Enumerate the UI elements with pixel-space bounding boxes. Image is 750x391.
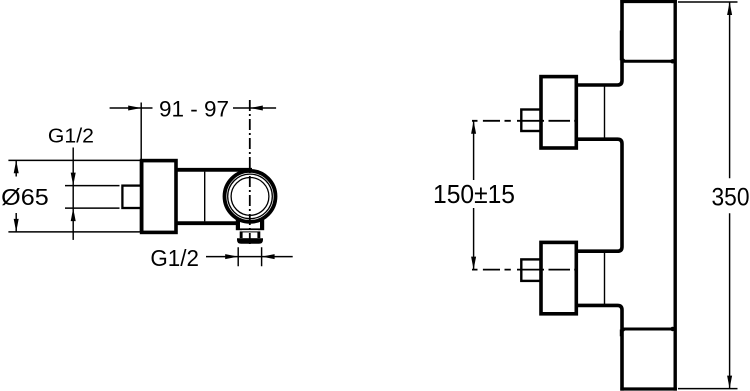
- bottom cap clip bump: [620, 330, 622, 337]
- upper inlet connector square: [521, 110, 541, 132]
- svg-text:G1/2: G1/2: [150, 245, 199, 271]
- redraw flange left edge over connector: [140, 161, 144, 233]
- junction dot divider/right edge top: [670, 59, 674, 63]
- bar bottom edge: [620, 387, 677, 390]
- dimension 91-97: left arrow: [128, 106, 141, 111]
- lower inlet connector square: [521, 259, 541, 281]
- svg-text:G1/2: G1/2: [48, 125, 94, 147]
- vertical dash-dot centerline through knob: [249, 100, 251, 245]
- dimension Ø65: dimension line segments: [15, 160, 17, 232]
- bottom cap divider: [622, 328, 675, 331]
- dimension G1/2 top: extension lines: [65, 186, 120, 209]
- dimension 91-97: right arrow: [250, 106, 263, 111]
- dimension 350: extension lines: [678, 2, 738, 389]
- top cap divider: [622, 60, 675, 63]
- dimension Ø65: top arrow: [14, 160, 19, 173]
- bar top edge: [620, 0, 677, 3]
- knob inner ring B: [231, 178, 269, 216]
- knob inner ring A: [228, 174, 273, 219]
- dimension 150±15: down arrow: [471, 257, 476, 270]
- junction dot divider/left edge bottom: [621, 328, 625, 332]
- dimension G1/2 bottom: right arrow: [262, 254, 275, 259]
- svg-text:150±15: 150±15: [433, 179, 515, 209]
- body top line: [176, 168, 252, 172]
- svg-text:Ø65: Ø65: [1, 184, 49, 210]
- dimension 350: up arrow: [727, 2, 732, 15]
- upper leg neck bottom / bar left edge middle segment / lower leg neck top: [576, 139, 622, 251]
- knob outer circle (thick): [225, 171, 276, 222]
- dimension 91-97: extension line left: [140, 103, 142, 160]
- wall flange (tall rectangle): [142, 161, 176, 233]
- dimension 350: down arrow: [727, 376, 732, 389]
- dimension G1/2 top: dimension line: [72, 148, 74, 240]
- upper centerline dash-dot: [472, 120, 577, 122]
- left inlet connector G1/2 square: [122, 186, 142, 208]
- body divider thin line: [204, 172, 206, 222]
- body bottom line: [176, 221, 244, 225]
- dimension 350: dimension line segments: [729, 2, 731, 389]
- outlet tip with flange: [237, 231, 263, 243]
- dimension 150±15: up arrow: [471, 121, 476, 134]
- lower leg neck bottom / bar left edge lower segment: [576, 305, 622, 390]
- dimension G1/2 top: down arrow: [71, 173, 76, 186]
- junction dot divider/right edge bottom: [670, 327, 674, 331]
- top cap clip bump: [620, 31, 622, 61]
- bar left edge upper segment with fillet into upper leg neck top: [576, 0, 622, 85]
- dimension G1/2 bottom: extension lines: [238, 247, 261, 266]
- dimension G1/2 bottom: dimension line: [206, 256, 293, 258]
- dimension Ø65: bottom arrow: [14, 219, 19, 232]
- bar right edge: [674, 0, 677, 391]
- dimension 150±15: dimension line segments: [473, 121, 475, 270]
- lower centerline dash-dot: [472, 269, 577, 271]
- svg-text:91 - 97: 91 - 97: [159, 97, 229, 122]
- upper leg neck divider thin line: [604, 85, 606, 139]
- junction dot divider/left edge top: [621, 59, 625, 63]
- svg-text:350: 350: [712, 184, 750, 212]
- dimension Ø65: extension lines: [8, 160, 140, 232]
- lower leg neck divider thin line: [604, 251, 606, 305]
- dimension G1/2 top: up arrow: [71, 208, 76, 221]
- dimension G1/2 bottom: left arrow: [225, 254, 238, 259]
- upper leg block: [541, 77, 576, 148]
- outlet neck (below knob): [236, 216, 264, 231]
- dimension 91-97: dimension line segments: [110, 107, 277, 109]
- lower leg block: [541, 242, 576, 313]
